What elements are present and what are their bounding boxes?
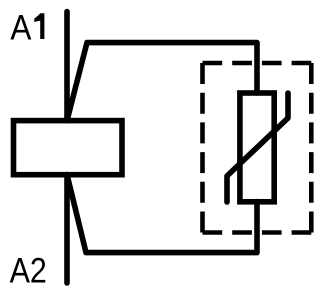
terminal label A2 <box>10 251 47 290</box>
suppressor module dashed enclosure: right edge <box>309 63 314 233</box>
coil K1 (contactor coil rectangle) <box>14 121 123 175</box>
svg-text:A: A <box>10 9 32 48</box>
wire: A1 vertical lead <box>64 12 70 121</box>
svg-text:A2: A2 <box>10 251 47 290</box>
varistor RU (body rectangle) <box>240 93 274 202</box>
varistor RU (diagonal stroke with bent ends) <box>227 93 288 202</box>
wire: top branch (node A1 to varistor top) <box>67 43 257 121</box>
suppressor module dashed enclosure: bottom edge <box>203 230 312 235</box>
wire: bottom branch (node A2 to varistor bottom) <box>67 175 257 253</box>
suppressor module dashed enclosure: top edge <box>203 61 312 66</box>
terminal label A1 <box>10 9 32 48</box>
wire: A2 vertical lead <box>64 175 70 283</box>
suppressor module dashed enclosure: left edge <box>200 63 205 233</box>
